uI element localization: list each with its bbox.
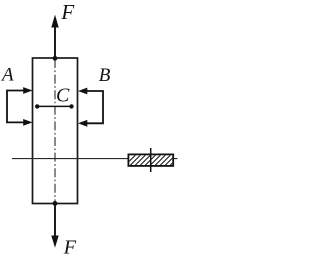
hatched section box (support) (124, 154, 182, 167)
centerline (dash-dot axis of bar) (54, 59, 56, 203)
svg-text:A: A (0, 64, 14, 85)
right bracket with arrows (load B) (78, 88, 103, 127)
section cut vertical line through hatched box (150, 148, 152, 172)
segment C (horizontal line with end dots inside bar) (35, 104, 74, 108)
node top (dot at top of bar) (53, 56, 58, 61)
svg-text:F: F (60, 0, 74, 24)
bar (vertical rectangle) (33, 58, 78, 204)
force F bottom arrow (51, 204, 58, 248)
horizontal axis line (12, 158, 178, 160)
node bottom (dot at bottom of bar) (53, 201, 58, 206)
force F top arrow (51, 15, 58, 58)
svg-text:F: F (63, 237, 77, 259)
svg-text:C: C (56, 85, 70, 107)
svg-text:B: B (99, 65, 111, 86)
left bracket with arrows (load A) (7, 87, 33, 126)
